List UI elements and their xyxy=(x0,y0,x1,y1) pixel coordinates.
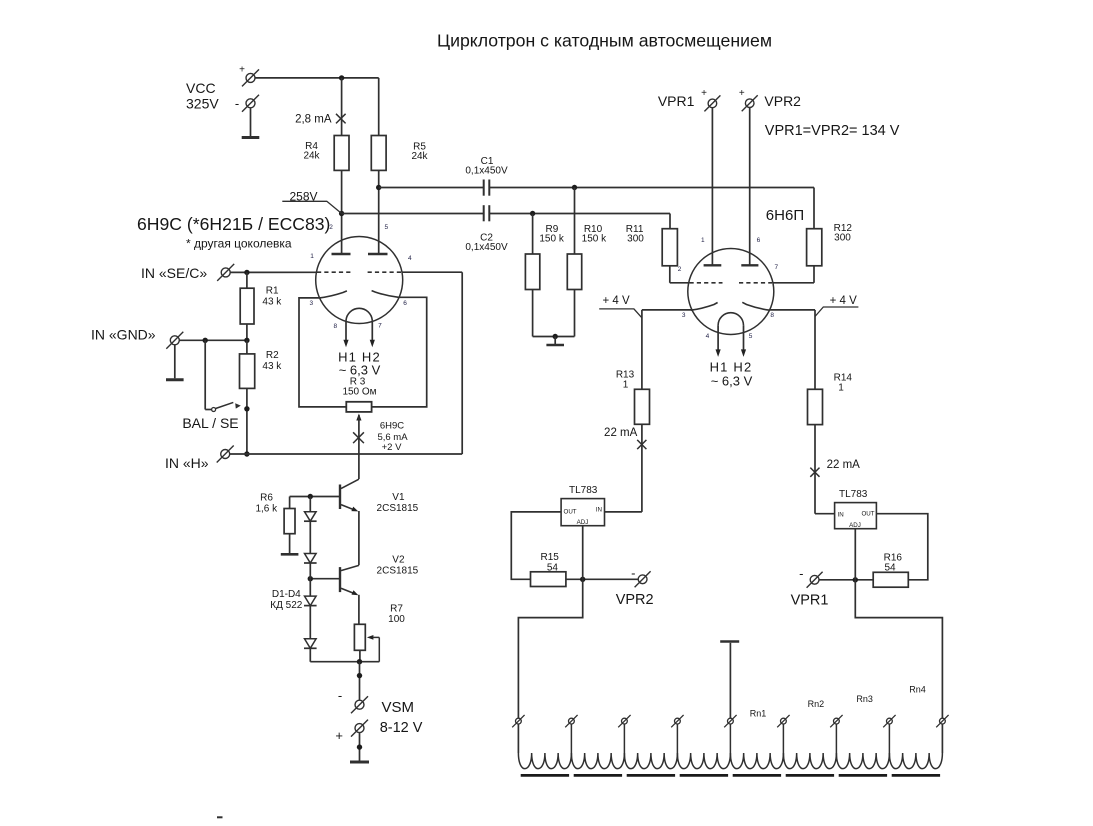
svg-text:VPR1: VPR1 xyxy=(791,593,829,609)
svg-text:OUT: OUT xyxy=(861,511,874,518)
svg-text:2CS1815: 2CS1815 xyxy=(377,565,419,576)
svg-text:* другая цоколевка: * другая цоколевка xyxy=(186,237,292,251)
svg-text:-: - xyxy=(338,688,342,703)
svg-text:4: 4 xyxy=(408,255,412,262)
svg-text:100: 100 xyxy=(388,614,405,625)
svg-text:R6: R6 xyxy=(260,492,273,503)
svg-text:22 mA: 22 mA xyxy=(827,459,861,471)
svg-text:R2: R2 xyxy=(266,350,279,361)
svg-text:IN «GND»: IN «GND» xyxy=(91,327,156,343)
svg-text:IN: IN xyxy=(596,507,602,514)
svg-text:0,1x450V: 0,1x450V xyxy=(465,242,508,253)
svg-text:IN «SE/C»: IN «SE/C» xyxy=(141,265,207,281)
svg-text:5: 5 xyxy=(749,333,753,340)
svg-text:54: 54 xyxy=(884,563,896,574)
svg-text:6Н9С: 6Н9С xyxy=(380,421,404,432)
svg-text:+ 4 V: + 4 V xyxy=(603,295,631,307)
svg-text:~ 6,3 V: ~ 6,3 V xyxy=(711,373,753,388)
svg-text:R1: R1 xyxy=(266,285,279,296)
svg-text:150 Ом: 150 Ом xyxy=(342,387,376,398)
svg-text:Rn2: Rn2 xyxy=(808,699,825,709)
svg-text:+: + xyxy=(739,88,745,99)
svg-text:ADJ: ADJ xyxy=(849,522,861,529)
svg-text:54: 54 xyxy=(547,562,559,573)
svg-text:300: 300 xyxy=(834,232,851,243)
svg-text:-: - xyxy=(235,96,239,111)
svg-text:43 k: 43 k xyxy=(262,297,282,308)
svg-text:VPR1: VPR1 xyxy=(658,93,695,109)
svg-text:IN: IN xyxy=(838,511,844,518)
svg-text:4: 4 xyxy=(706,333,710,340)
svg-text:IN «H»: IN «H» xyxy=(165,455,209,471)
svg-text:H1 H2: H1 H2 xyxy=(710,359,753,374)
svg-text:325V: 325V xyxy=(186,96,219,112)
svg-text:8-12 V: 8-12 V xyxy=(380,720,423,736)
svg-text:0,1x450V: 0,1x450V xyxy=(465,166,508,177)
svg-text:VPR2: VPR2 xyxy=(616,592,654,608)
svg-text:1: 1 xyxy=(310,253,314,260)
svg-text:V1: V1 xyxy=(392,492,405,503)
svg-text:VPR2: VPR2 xyxy=(764,93,801,109)
svg-text:43 k: 43 k xyxy=(262,361,282,372)
svg-text:+: + xyxy=(239,65,245,76)
svg-text:1: 1 xyxy=(838,382,844,393)
svg-text:+2 V: +2 V xyxy=(382,442,402,453)
svg-text:R7: R7 xyxy=(390,603,403,614)
svg-text:+: + xyxy=(335,728,343,743)
svg-text:1: 1 xyxy=(701,237,705,244)
svg-text:КД 522: КД 522 xyxy=(270,600,302,611)
svg-text:Rn1: Rn1 xyxy=(750,708,767,718)
svg-text:Цирклотрон с катодным автосмещ: Цирклотрон с катодным автосмещением xyxy=(437,31,772,51)
svg-text:~ 6,3 V: ~ 6,3 V xyxy=(339,363,381,378)
svg-text:VSM: VSM xyxy=(382,699,415,716)
svg-text:TL783: TL783 xyxy=(569,485,598,496)
svg-text:Rn4: Rn4 xyxy=(909,685,926,695)
svg-text:22 mA: 22 mA xyxy=(604,427,638,439)
svg-text:7: 7 xyxy=(774,264,778,271)
svg-text:3: 3 xyxy=(309,300,313,307)
svg-text:OUT: OUT xyxy=(564,508,577,515)
svg-text:-: - xyxy=(631,566,635,581)
svg-text:300: 300 xyxy=(627,233,644,244)
svg-text:2: 2 xyxy=(678,266,682,273)
svg-text:3: 3 xyxy=(682,312,686,319)
svg-text:150 k: 150 k xyxy=(582,233,607,244)
svg-text:2: 2 xyxy=(329,224,333,231)
svg-text:D1-D4: D1-D4 xyxy=(272,589,301,600)
svg-text:24k: 24k xyxy=(303,151,320,162)
svg-text:8: 8 xyxy=(333,323,337,330)
svg-text:6Н6П: 6Н6П xyxy=(766,207,804,224)
svg-text:2,8 mA: 2,8 mA xyxy=(295,113,332,125)
svg-text:8: 8 xyxy=(770,312,774,319)
svg-text:Rn3: Rn3 xyxy=(856,694,873,704)
svg-text:V2: V2 xyxy=(392,554,405,565)
svg-text:-: - xyxy=(799,566,803,581)
svg-text:2CS1815: 2CS1815 xyxy=(377,503,419,514)
svg-text:ADJ: ADJ xyxy=(577,519,589,526)
svg-text:+: + xyxy=(701,88,707,99)
svg-text:1,6 k: 1,6 k xyxy=(255,503,278,514)
svg-text:VPR1=VPR2= 134 V: VPR1=VPR2= 134 V xyxy=(765,123,900,139)
svg-text:+ 4 V: + 4 V xyxy=(830,295,858,307)
svg-text:1: 1 xyxy=(623,380,629,391)
svg-text:6: 6 xyxy=(403,300,407,307)
svg-text:150 k: 150 k xyxy=(539,233,564,244)
svg-text:7: 7 xyxy=(378,323,382,330)
svg-text:6Н9С (*6Н21Б / ECC83): 6Н9С (*6Н21Б / ECC83) xyxy=(137,214,330,234)
svg-text:5: 5 xyxy=(384,224,388,231)
svg-text:24k: 24k xyxy=(411,151,428,162)
svg-text:6: 6 xyxy=(757,237,761,244)
svg-text:TL783: TL783 xyxy=(839,489,868,500)
svg-text:VCC: VCC xyxy=(186,80,216,96)
svg-text:BAL / SE: BAL / SE xyxy=(182,415,238,431)
